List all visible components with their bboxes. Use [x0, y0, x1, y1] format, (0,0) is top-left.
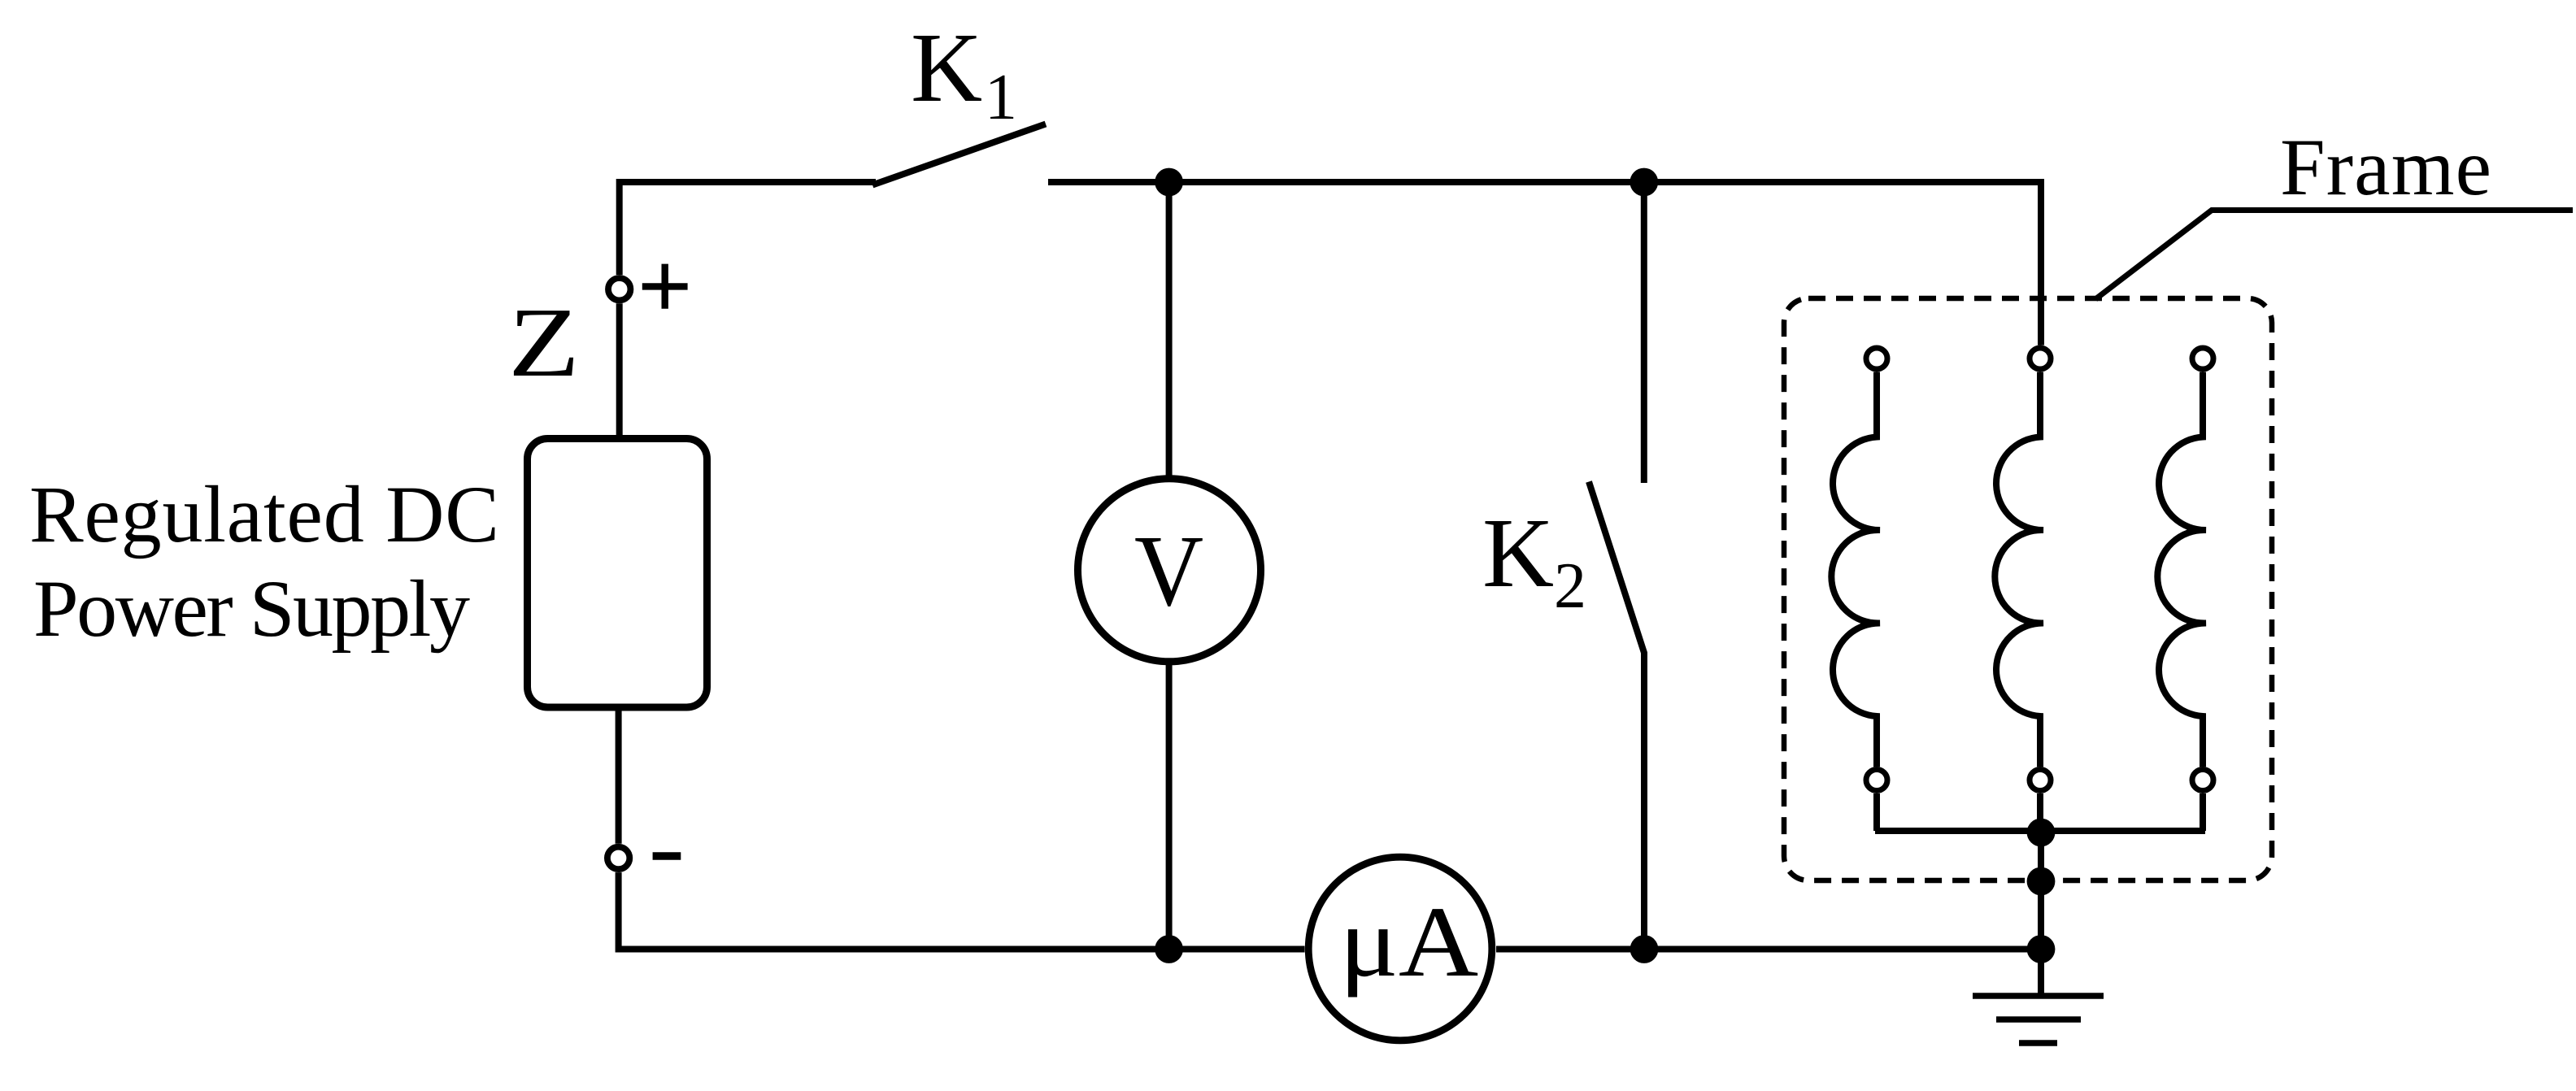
- svg-text:2: 2: [1554, 550, 1586, 622]
- svg-text:K: K: [911, 13, 982, 123]
- svg-text:Power Supply: Power Supply: [33, 563, 470, 654]
- svg-text:1: 1: [985, 62, 1017, 133]
- svg-text:Frame: Frame: [2280, 122, 2491, 212]
- svg-text:Z: Z: [508, 287, 580, 397]
- svg-text:V: V: [1134, 515, 1203, 628]
- svg-text:Regulated DC: Regulated DC: [29, 469, 499, 559]
- svg-text:K: K: [1482, 498, 1554, 608]
- svg-text:μA: μA: [1339, 886, 1478, 998]
